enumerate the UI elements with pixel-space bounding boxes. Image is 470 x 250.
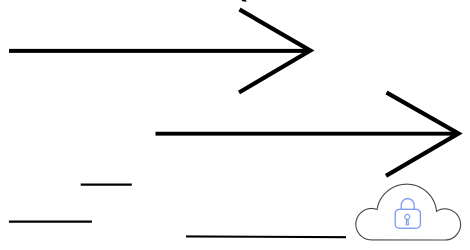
keyhole circle bbox=[405, 214, 410, 219]
cloud outline bbox=[356, 184, 461, 240]
arrow 2 head bbox=[386, 93, 459, 176]
arrow 1 shaft bbox=[9, 49, 310, 53]
long line C bbox=[186, 235, 346, 238]
short line A bbox=[81, 184, 132, 186]
lock shackle bbox=[401, 199, 414, 210]
keyhole stem bbox=[406, 219, 408, 225]
arrow 1 head bbox=[239, 10, 310, 93]
lock body bbox=[395, 209, 420, 228]
short line B bbox=[9, 221, 92, 223]
clipped mark at top edge bbox=[241, 0, 247, 2]
arrow 2 shaft bbox=[156, 132, 457, 136]
